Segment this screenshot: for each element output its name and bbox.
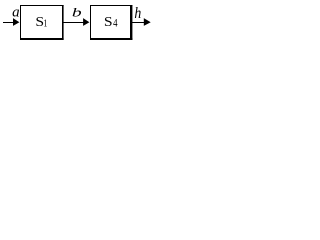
wire input arrow shaft [3,22,14,23]
box S1 [20,5,64,6]
svg-text:S: S [104,14,113,29]
arrowhead output [144,18,151,26]
wire S1 to S4 shaft [63,22,84,23]
arrowhead S1-S4 [83,18,89,26]
svg-text:h: h [134,5,141,22]
svg-text:4: 4 [113,18,118,30]
wire output arrow shaft [131,22,144,23]
svg-text:b: b [72,5,82,20]
svg-text:1: 1 [43,19,47,30]
box S4 [90,5,132,6]
arrowhead input [13,18,19,26]
svg-text:a: a [12,5,20,21]
